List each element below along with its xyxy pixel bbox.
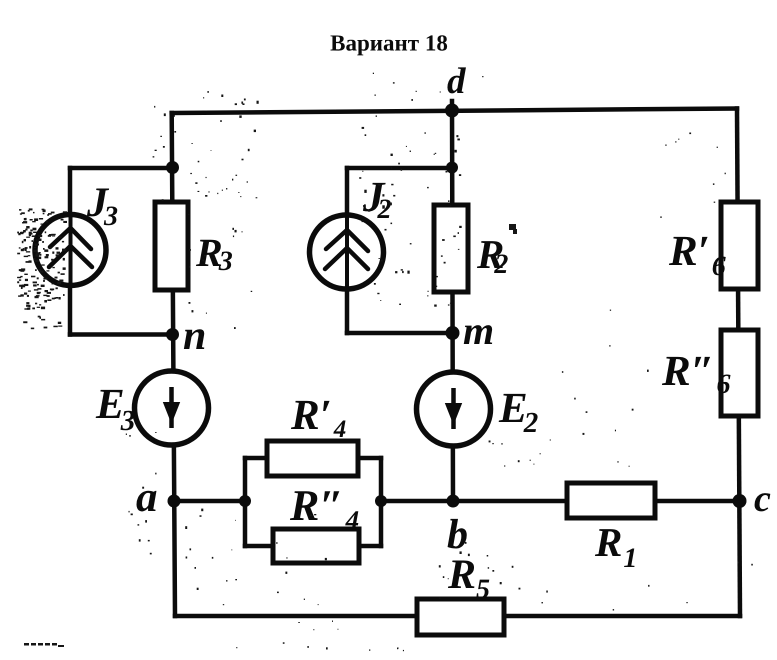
wire J3 loop bottom (70, 332, 173, 337)
wire J2 loop bottom (347, 331, 452, 336)
wire R4-block right bracket (379, 458, 384, 546)
wire right vertical rail (737, 109, 740, 617)
resistor R''6 (721, 330, 758, 416)
wire J3 loop top (70, 166, 173, 171)
node d junction dot (445, 104, 459, 118)
current source J2 (310, 215, 384, 289)
resistor R1 (567, 483, 655, 518)
svg-text:m: m (463, 308, 494, 353)
EMF source E3 (135, 371, 209, 445)
wire J2 loop left (345, 168, 350, 333)
svg-text:d: d (447, 61, 466, 102)
mask gap: no direct wire between R4 brackets at y=501 (249, 495, 377, 507)
resistor R'4 (267, 441, 358, 476)
node J2-top junction dot (446, 162, 458, 174)
node a junction dot (168, 495, 181, 508)
resistor R''4 (273, 529, 359, 563)
svg-text:a: a (136, 474, 158, 521)
current source J3 (35, 214, 106, 286)
wire R4-block bottom branch (245, 544, 381, 549)
svg-text:R2: R2 (476, 231, 508, 280)
node n junction dot (166, 328, 179, 341)
node J3-top junction dot (166, 161, 179, 174)
resistor R'6 (721, 202, 758, 289)
resistor R3 (155, 202, 188, 290)
wire J2 loop top (347, 166, 452, 171)
node b junction dot (447, 495, 460, 508)
wire left vertical rail (172, 113, 175, 616)
wire R4-block top branch (245, 456, 381, 461)
node m junction dot (446, 326, 460, 340)
resistor R5 (417, 599, 504, 635)
svg-text:Вариант 18: Вариант 18 (330, 31, 448, 56)
wire bottom rail (175, 614, 740, 619)
svg-text:c: c (754, 478, 771, 520)
wire R4-block left bracket (243, 458, 248, 546)
svg-text:n: n (183, 313, 206, 359)
EMF source E2 (417, 372, 491, 446)
node c junction dot (733, 494, 747, 508)
node R4-left junction dot (239, 495, 251, 507)
wire middle horizontal a to c (172, 499, 740, 504)
wire top d-rail (172, 109, 737, 114)
node R4-right junction dot (375, 495, 387, 507)
wire middle vertical d to b (452, 101, 453, 501)
resistor R2 (434, 205, 468, 292)
wire J3 loop left (68, 168, 73, 335)
